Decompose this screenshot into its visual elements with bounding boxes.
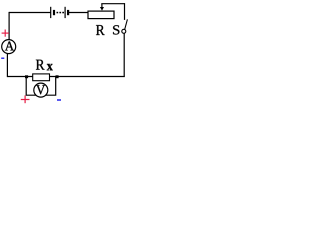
switch S blade <box>125 19 128 29</box>
wire right vertical to switch <box>124 3 126 20</box>
voltmeter label V <box>36 85 45 94</box>
ammeter plus mark (red) <box>2 30 9 37</box>
resistor Rx box <box>33 74 50 81</box>
battery long plate 2 <box>64 7 66 18</box>
node junction left <box>25 75 28 78</box>
ammeter minus mark (blue) <box>1 57 4 59</box>
switch label S <box>113 25 119 34</box>
battery B1 <box>51 7 68 18</box>
ammeter A circle <box>2 40 16 54</box>
wire left vertical to ammeter <box>8 12 10 40</box>
rheostat R box <box>88 11 114 19</box>
voltmeter minus mark (blue) <box>57 99 61 101</box>
wire top-left horizontal <box>9 12 50 14</box>
rheostat label R <box>96 25 105 35</box>
battery short plate 1 <box>53 10 55 15</box>
wire wiper to top right <box>101 3 124 5</box>
wire ammeter down to bottom wire <box>6 54 8 77</box>
ammeter label A <box>5 42 14 51</box>
battery long plate 1 <box>50 7 52 18</box>
wire voltmeter branch right <box>45 77 56 96</box>
battery short plate 2 <box>67 10 69 15</box>
rheostat wiper arrow <box>101 4 103 8</box>
wire battery to rheostat <box>69 12 88 14</box>
voltmeter plus mark (red) <box>21 95 30 103</box>
voltmeter V circle <box>34 83 48 97</box>
node junction right <box>56 75 59 78</box>
battery dots <box>57 12 59 14</box>
wire voltmeter branch left <box>26 77 36 96</box>
switch S contact circle <box>122 29 126 33</box>
resistor label Rx <box>36 60 45 70</box>
wire bottom horizontal <box>7 76 124 78</box>
wire switch down to bottom right corner <box>123 33 125 76</box>
